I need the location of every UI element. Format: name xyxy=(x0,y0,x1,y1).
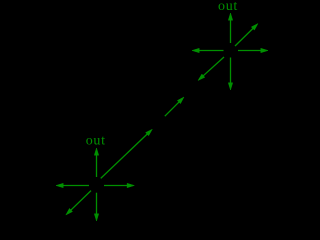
svg-text:out: out xyxy=(218,0,238,14)
src2 long up-right arrow xyxy=(101,129,153,178)
src1 up-right arrow xyxy=(235,24,258,47)
src2 up arrow xyxy=(94,148,98,177)
src1 up arrow xyxy=(228,13,232,43)
src2 down arrow xyxy=(94,193,98,221)
src2 down-left arrow xyxy=(66,191,91,215)
mid-line arrow xyxy=(165,97,184,116)
src1 down-left arrow xyxy=(198,57,224,81)
src2 right arrow xyxy=(104,183,134,187)
src1 right arrow xyxy=(238,48,268,52)
src1 down arrow xyxy=(228,58,232,91)
src1 left arrow xyxy=(192,48,224,52)
src2 left arrow xyxy=(56,183,89,187)
svg-text:out: out xyxy=(86,133,106,148)
